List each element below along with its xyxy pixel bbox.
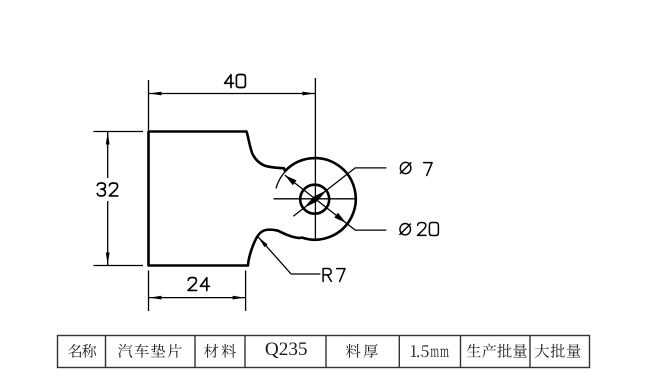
R7 leader with arrow to lower fillet [258, 237, 320, 274]
dimension 24: dimension line with arrows [149, 297, 246, 299]
Ø20 arrow NW [285, 175, 297, 185]
Ø20 arrow SE [334, 213, 346, 223]
dimension 32: dimension line with arrows (broken for text) [107, 132, 109, 179]
Ø7 arrow NE [314, 190, 327, 201]
Ø20 label [400, 224, 411, 235]
vertical centerline [314, 78, 316, 240]
dimension 24: text [188, 278, 197, 291]
inner hole Ø7 [300, 185, 329, 214]
table cell: 汽车垫片 [118, 344, 132, 358]
part outline: 24x32 plate with R7 fillets and Ø20 round boss [149, 132, 356, 266]
Ø20 dimension: diagonal line + leader to label [285, 175, 387, 230]
Ø7 arrow SW [304, 197, 317, 208]
Ø7 dimension: diagonal line through hole + leader to label [293, 168, 386, 216]
table cell: 大批量 [535, 344, 549, 358]
title block table [58, 336, 590, 368]
table cell: 名称 [68, 344, 81, 358]
table cell: 生产批量 [467, 344, 481, 357]
table cell: 材料 [204, 344, 218, 358]
svg-text:Q235: Q235 [265, 339, 308, 360]
R7 label [323, 269, 331, 282]
dimension 24: extension lines [148, 271, 150, 312]
thin arc: Ø20 circle continuation at upper-left tangent [276, 171, 285, 188]
dimension 32: text [97, 183, 105, 196]
dimension 40: text [225, 75, 234, 88]
dimension 40: extension line [148, 80, 150, 130]
Ø7 label [400, 162, 411, 173]
dimension 40: dimension line with arrows [149, 93, 316, 95]
horizontal centerline [274, 198, 357, 200]
table cell: 料厚 [346, 344, 360, 358]
dimension 32: extension lines [94, 131, 144, 133]
table cell: 1.5mm [411, 345, 417, 357]
